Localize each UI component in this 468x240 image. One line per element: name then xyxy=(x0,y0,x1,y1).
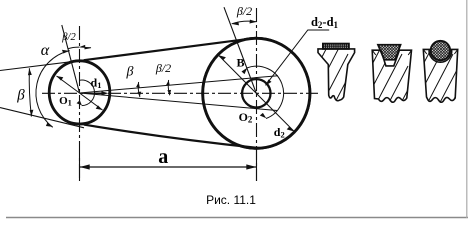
d1 dimension arrow xyxy=(95,91,108,95)
beta angle arc left xyxy=(28,68,34,116)
right border xyxy=(466,0,468,218)
slanted radius line pulley 2 xyxy=(224,7,256,93)
radial diameter arrows pulley 1 xyxy=(57,76,103,110)
svg-text:α: α xyxy=(41,42,50,59)
beta/2 mark arc mid xyxy=(166,80,171,95)
svg-text:β: β xyxy=(16,88,25,104)
vertical centerline pulley 2 xyxy=(256,8,258,181)
section 3 round belt xyxy=(431,41,450,60)
beta/2 arc pulley 2 xyxy=(232,20,257,26)
belt top line extension xyxy=(0,60,84,70)
bottom-left construction line xyxy=(0,108,84,128)
svg-text:Рис. 11.1: Рис. 11.1 xyxy=(206,193,256,207)
small pulley circle d1 xyxy=(49,61,110,124)
d2-d1 leader line xyxy=(265,30,329,86)
diverging line upper O1 to big pulley xyxy=(80,76,279,93)
beta/2 arc pulley 1 xyxy=(68,45,91,49)
horizontal axis centerline xyxy=(42,92,318,94)
svg-text:a: a xyxy=(158,146,168,168)
alpha wrap arc pulley 1 xyxy=(36,50,70,128)
svg-text:O1: O1 xyxy=(59,95,72,108)
d1 leader arc around center O1 xyxy=(77,80,95,106)
svg-text:β/2: β/2 xyxy=(155,61,171,75)
section 2 v-belt pulley xyxy=(364,30,432,164)
svg-text:β: β xyxy=(126,65,134,80)
svg-text:β/2: β/2 xyxy=(236,4,252,18)
d1 comparison arc on big pulley xyxy=(242,66,284,118)
extension line pulley 1 xyxy=(79,155,81,181)
section 3 round belt pulley xyxy=(415,30,468,152)
beta mark arc mid xyxy=(136,82,141,97)
d2 dimension line xyxy=(218,55,294,131)
bottom border xyxy=(6,217,468,219)
extension line pulley 2 xyxy=(256,150,258,181)
svg-text:β/2: β/2 xyxy=(61,32,76,43)
svg-text:B: B xyxy=(236,56,244,70)
section 2 v-belt xyxy=(378,45,401,60)
diverging line lower O1 to big pulley xyxy=(80,93,278,111)
vertical centerline pulley 1 xyxy=(79,26,81,181)
section 1 flat belt pulley xyxy=(310,30,372,152)
big pulley bore circle xyxy=(242,79,270,107)
big pulley outer circle d2 xyxy=(203,38,310,148)
section 1 flat belt xyxy=(323,44,349,49)
belt loop xyxy=(49,38,310,149)
slanted radius line pulley 1 xyxy=(62,25,80,93)
center distance dimension a xyxy=(80,164,257,169)
